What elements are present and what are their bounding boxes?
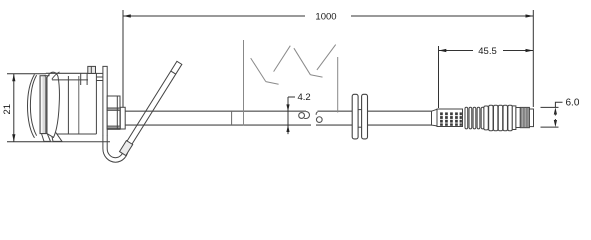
cable break curl left xyxy=(304,112,309,119)
sensor head body right edge xyxy=(95,73,97,134)
bracket U bend outer xyxy=(103,136,128,163)
connector crimp checker pattern xyxy=(440,112,462,125)
break mark 2 xyxy=(294,45,336,78)
connector transition xyxy=(432,109,438,126)
rod sleeve xyxy=(120,141,133,156)
cable after bead xyxy=(367,110,432,112)
sensor head body verticals xyxy=(67,76,69,134)
dimension 4.2 arrow up xyxy=(286,125,289,132)
sensor head barrel cross line xyxy=(52,72,60,80)
connector end cap xyxy=(529,109,533,127)
connector ring 2 xyxy=(516,108,520,128)
break mark 1 xyxy=(251,46,291,85)
connector body slabs xyxy=(484,105,512,131)
sensor head foot 2 xyxy=(51,131,62,141)
cable nipple xyxy=(120,107,125,129)
sensor head front face xyxy=(40,76,46,134)
connector knurled ring xyxy=(520,107,529,127)
dimension 6.0 arrow up xyxy=(554,107,557,114)
dimension 1000 right extension line xyxy=(532,10,534,107)
dimension 6.0 leader xyxy=(555,102,562,107)
sensor head body bottom xyxy=(57,133,97,135)
dimension 45.5 arrow right xyxy=(526,49,534,52)
dimension 21 arrow top xyxy=(12,74,15,82)
cable gland xyxy=(107,96,120,129)
connector bellows ribs xyxy=(465,107,484,129)
cable left piece xyxy=(125,110,307,112)
dimension 6.0 bottom extension line xyxy=(541,126,559,128)
bracket flange xyxy=(103,66,107,135)
connector bellows backing xyxy=(464,109,484,129)
break boundary line left xyxy=(243,40,245,126)
bracket rod xyxy=(120,61,183,156)
sensor head bottom line xyxy=(45,141,110,143)
sensor head dome inner arc xyxy=(30,75,36,136)
sensor head body top band xyxy=(46,72,97,74)
cable tick xyxy=(231,111,233,125)
sensor head foot 1 xyxy=(42,134,51,142)
sensor head dome outer arc xyxy=(28,74,35,137)
dimension 1000 arrow left xyxy=(123,14,131,17)
break boundary line right xyxy=(337,57,339,113)
dimension 45.5 dim line xyxy=(439,50,474,52)
dimension 4.2 leader xyxy=(288,96,295,98)
sensor head step lines xyxy=(80,73,82,85)
dimension 21 dim line xyxy=(13,74,15,142)
dimension 21 bottom extension line xyxy=(7,141,45,143)
ferrite bead flange 2 xyxy=(362,94,368,139)
sensor head lens barrel xyxy=(47,72,59,137)
connector body backing xyxy=(484,107,512,131)
ferrite bead hub xyxy=(357,109,363,111)
dimension 6.0 top extension line xyxy=(541,106,559,108)
sensor head rear lines xyxy=(96,72,103,74)
svg-text:4.2: 4.2 xyxy=(298,92,311,103)
dimension 21 arrow bottom xyxy=(12,134,15,142)
cable right piece xyxy=(318,110,353,112)
dimension 45.5 left extension line xyxy=(438,46,440,108)
svg-text:45.5: 45.5 xyxy=(478,46,497,57)
dimension 4.2 arrow down xyxy=(286,104,289,111)
ferrite bead flange 1 xyxy=(352,94,358,139)
svg-text:21: 21 xyxy=(2,104,13,115)
dimension 4.2 dim line xyxy=(287,97,289,134)
cable break curl right xyxy=(316,112,317,115)
dimension 45.5 arrow left xyxy=(439,49,447,52)
dimension 6.0 arrow down xyxy=(554,120,557,127)
dimension 21 top extension line xyxy=(7,73,46,75)
dimension 1000 dim line xyxy=(123,15,305,17)
connector crimp body xyxy=(437,109,463,127)
dimension 1000 arrow right xyxy=(526,14,534,17)
dimension 1000 left extension line xyxy=(122,10,124,111)
svg-text:6.0: 6.0 xyxy=(566,98,580,109)
connector ring xyxy=(512,106,516,130)
svg-text:1000: 1000 xyxy=(315,12,336,23)
sensor head tab xyxy=(88,66,96,73)
bracket U bend inner xyxy=(107,136,123,158)
